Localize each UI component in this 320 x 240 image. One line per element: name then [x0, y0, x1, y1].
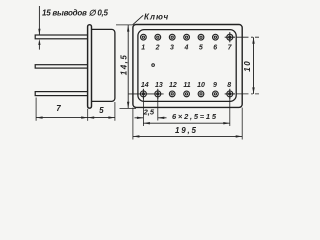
pin 10	[198, 91, 204, 97]
svg-text:6×2,5=15: 6×2,5=15	[172, 112, 217, 121]
svg-text:13: 13	[155, 82, 163, 89]
pin 8 centerline to dim	[237, 93, 260, 95]
svg-text:3: 3	[170, 45, 174, 52]
arrow up to lead bottom	[38, 39, 40, 45]
svg-text:14: 14	[141, 82, 149, 89]
svg-text:5: 5	[99, 106, 104, 115]
ext line pin14 down	[142, 98, 144, 127]
svg-text:6: 6	[213, 45, 217, 52]
pin 4	[184, 34, 190, 40]
svg-text:2,5: 2,5	[143, 108, 155, 117]
svg-text:9: 9	[213, 82, 217, 89]
inner body rounded rect (top view)	[138, 30, 236, 102]
package flange (side view)	[88, 25, 92, 109]
dim line 6x2,5=15	[143, 122, 229, 124]
svg-text:5: 5	[199, 45, 203, 52]
arrow down to lead top	[38, 29, 40, 35]
centerline through pins 14,13	[129, 93, 164, 95]
svg-text:15 выводов ∅ 0,5: 15 выводов ∅ 0,5	[42, 9, 109, 18]
pin 15 dot	[152, 64, 155, 67]
svg-text:12: 12	[169, 82, 177, 89]
pin 14 crosshair	[140, 89, 146, 99]
svg-text:1: 1	[141, 45, 145, 52]
pin 7 centerline to dim	[237, 36, 260, 38]
lead top (side view)	[35, 35, 88, 39]
outer flange rect (top view)	[133, 25, 242, 108]
lead bottom (side view)	[35, 92, 88, 96]
dim 2,5 left arrow	[135, 117, 144, 119]
pin 5	[198, 34, 204, 40]
svg-text:19,5: 19,5	[175, 126, 197, 135]
extension line from body right edge	[114, 102, 116, 121]
arrows at flange ext	[81, 116, 88, 118]
pin 12	[169, 91, 175, 97]
arrow up 10	[252, 37, 254, 44]
pin 6	[213, 34, 219, 40]
svg-text:10: 10	[197, 82, 205, 89]
arrow up 14,5	[127, 25, 129, 32]
pin 13 crosshair	[155, 89, 161, 99]
ext line outer rect bottom-left down	[132, 108, 134, 140]
arrow right at 5	[108, 116, 115, 118]
extension line from flange left face	[87, 109, 89, 121]
svg-text:14,5: 14,5	[119, 55, 128, 76]
svg-text:10: 10	[243, 61, 252, 72]
package body (side view)	[91, 29, 115, 101]
pin 7 crosshair	[225, 32, 235, 42]
svg-text:4: 4	[183, 45, 188, 52]
key leader line	[133, 15, 143, 24]
svg-text:11: 11	[183, 82, 190, 89]
dim 14,5 bottom extension	[120, 107, 137, 109]
pin 9	[213, 91, 219, 97]
dimension line 7	[36, 117, 88, 119]
ext line outer rect bottom-right down	[241, 108, 243, 140]
pin 8 crosshair	[225, 89, 235, 99]
dim line 14,5	[127, 25, 129, 108]
pin 2	[155, 34, 161, 40]
svg-text:7: 7	[56, 104, 61, 113]
lead middle (side view, pin 15)	[35, 65, 88, 68]
pin 3	[169, 34, 175, 40]
dim 14,5 top extension	[116, 24, 134, 26]
svg-text:Ключ: Ключ	[144, 13, 169, 22]
extension line from lead tips	[35, 98, 37, 121]
leader line for lead diameter note	[38, 6, 40, 30]
arrow down 10	[252, 87, 254, 94]
svg-text:2: 2	[155, 45, 160, 52]
svg-text:8: 8	[227, 82, 231, 89]
arrow left at 7	[36, 116, 43, 118]
ext line pin13 down	[157, 98, 159, 121]
dimension line 5	[88, 117, 115, 119]
arrow down 14,5	[127, 102, 129, 109]
pin 1	[141, 34, 147, 40]
dim 2,5 right arrow	[158, 117, 167, 119]
dim line 10	[253, 37, 255, 94]
pin 11	[184, 91, 190, 97]
ext line pin8 down	[229, 98, 231, 127]
dim line 19,5	[133, 135, 242, 137]
